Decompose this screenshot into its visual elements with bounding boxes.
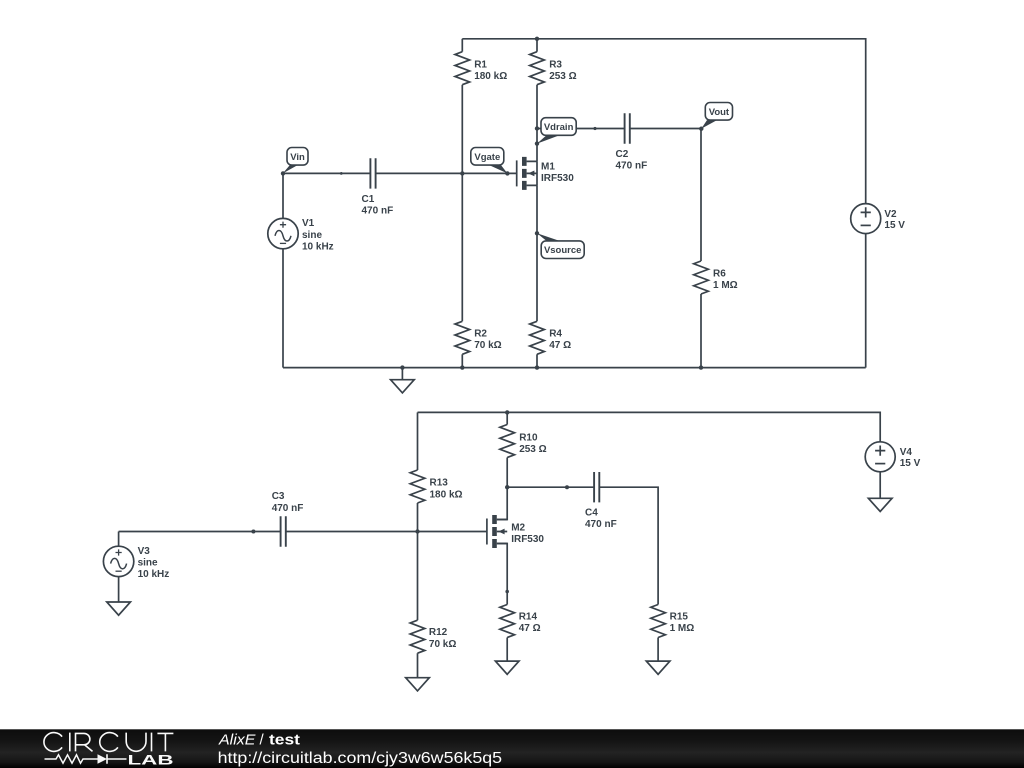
wire R15 bottom stub [657, 638, 659, 662]
svg-text:R14: R14 [519, 611, 538, 622]
junction dot ground rail tap [400, 365, 404, 369]
svg-text:R2: R2 [474, 328, 487, 339]
junction dot R4-rail [535, 365, 539, 369]
svg-text:R15: R15 [670, 611, 689, 622]
junction dot Vdrain anchor [535, 141, 539, 145]
svg-text:C4: C4 [585, 508, 598, 519]
wire R6 bottom stub [700, 294, 702, 368]
wire C4 to R15 corner [599, 487, 658, 604]
source V4 15V [865, 442, 920, 472]
wire V2 bottom lead [865, 234, 867, 368]
svg-text:IRF530: IRF530 [511, 534, 544, 545]
svg-text:R6: R6 [713, 269, 726, 280]
CircuitLab logo CIRCUIT letters [44, 733, 173, 752]
svg-text:47 Ω: 47 Ω [549, 340, 571, 351]
resistor R1 [455, 52, 470, 85]
wire R3 bottom to M1 drain [536, 85, 538, 162]
wire C2 to Vout corner down to R6 [630, 129, 701, 262]
svg-text:C2: C2 [616, 149, 629, 160]
logo resistor-diode doodle [45, 754, 127, 764]
wire M1 source to R4 [536, 185, 538, 321]
svg-text:M1: M1 [541, 161, 555, 172]
svg-text:1 MΩ: 1 MΩ [670, 623, 695, 634]
ground symbol below R15 [646, 661, 670, 674]
wire R1 bottom to input node [461, 85, 463, 322]
wire bottom ground rail [283, 367, 866, 369]
svg-text:Vdrain: Vdrain [544, 122, 574, 133]
svg-text:470 nF: 470 nF [362, 206, 394, 217]
resistor R13 [410, 470, 425, 503]
svg-text:10 kHz: 10 kHz [302, 241, 334, 252]
R12 value label [429, 627, 456, 650]
svg-text:M2: M2 [511, 522, 525, 533]
junction dot C2 left terminal [593, 127, 596, 130]
footer bar background [0, 729, 1024, 768]
wire R4 bottom stub [536, 354, 538, 367]
ground symbol below V3 [107, 602, 131, 615]
wire ground stem top circuit [401, 368, 403, 380]
svg-text:V2: V2 [884, 209, 897, 220]
resistor R15 [651, 605, 666, 638]
wire lower supply rail with V4 branch [418, 412, 881, 442]
wire drain out to C2 [537, 128, 625, 130]
svg-text:470 nF: 470 nF [272, 503, 304, 514]
wire R3 top stub [536, 39, 538, 52]
junction dot M2 source pin [505, 590, 509, 594]
svg-text:180 kΩ: 180 kΩ [430, 489, 463, 500]
R14 value label [519, 611, 541, 634]
junction dot Vsource anchor [535, 231, 539, 235]
ground symbol below V4 [868, 498, 892, 511]
junction dot rail-R10 [505, 410, 509, 414]
resistor R6 [694, 261, 709, 294]
junction dot Vin node [281, 171, 285, 175]
svg-text:R13: R13 [430, 478, 449, 489]
svg-text:470 nF: 470 nF [616, 161, 648, 172]
junction dot R6-rail [699, 365, 703, 369]
source V3 sine 10kHz [103, 546, 169, 580]
wire M2 drain lead [497, 487, 507, 519]
junction dot rail-R3 [535, 37, 539, 41]
svg-text:1 MΩ: 1 MΩ [713, 280, 738, 291]
svg-text:R4: R4 [549, 328, 562, 339]
svg-text:test: test [269, 732, 300, 749]
svg-text:sine: sine [138, 558, 158, 569]
junction dot C4 left terminal [565, 485, 569, 489]
junction dot C1 left terminal [340, 172, 343, 175]
wire V4 bottom lead [879, 472, 881, 499]
svg-text:253 Ω: 253 Ω [519, 444, 546, 455]
ground symbol top circuit [391, 380, 415, 393]
wire R10 top stub [506, 412, 508, 424]
wire R10 bottom to drain node [506, 458, 508, 488]
junction dot R2-rail [460, 365, 464, 369]
svg-text:Vout: Vout [709, 107, 730, 118]
svg-text:C3: C3 [272, 491, 285, 502]
svg-text:180 kΩ: 180 kΩ [474, 71, 507, 82]
junction dot drain-output [535, 126, 539, 130]
junction dot drain node [505, 485, 509, 489]
C3 value label [272, 491, 304, 514]
svg-text:Vsource: Vsource [544, 245, 582, 256]
junction dot Vout corner [699, 127, 703, 131]
capacitor C2 [625, 113, 630, 143]
C2 value label [616, 149, 648, 172]
transistor M2 IRF530 [487, 515, 545, 548]
svg-text:IRF530: IRF530 [541, 173, 574, 184]
resistor R14 [500, 605, 515, 638]
junction dot C3 left terminal [251, 530, 255, 534]
wire C1 to M1 gate [376, 172, 517, 174]
resistor R12 [410, 620, 425, 653]
wire V1 bottom lead [282, 249, 284, 368]
resistor R2 [455, 321, 470, 354]
C1 value label [362, 194, 394, 217]
wire M1 internal vertical [536, 161, 538, 185]
R4 value label [549, 328, 571, 351]
wire drain node to C4 [507, 486, 594, 488]
wire V3 to C3 [119, 531, 281, 533]
wire V3 bottom lead [118, 576, 120, 602]
resistor R4 [530, 321, 545, 354]
resistor R3 [530, 52, 545, 85]
wire V1 top lead [282, 173, 284, 218]
ground symbol below R12 [406, 678, 430, 691]
R6 value label [713, 269, 738, 292]
junction dot gate-R13 junction [415, 529, 419, 533]
svg-text:V4: V4 [900, 447, 913, 458]
svg-text:Vgate: Vgate [474, 152, 500, 163]
svg-text:V3: V3 [138, 546, 151, 557]
R1 value label [474, 59, 507, 82]
svg-text:LAB: LAB [128, 752, 174, 768]
wire R2 bottom stub [461, 354, 463, 367]
capacitor C3 [281, 516, 286, 546]
footer author line AlixE / test [218, 732, 300, 749]
wire R13 bottom to gate net [417, 503, 419, 620]
node flag Vsource [537, 233, 584, 258]
svg-text:sine: sine [302, 230, 322, 241]
svg-text:Vin: Vin [290, 152, 305, 163]
wire input net Vin to C1 [283, 172, 370, 174]
svg-text:R1: R1 [474, 59, 487, 70]
source V2 15V [851, 204, 906, 234]
wire R13 top stub [417, 412, 419, 470]
wire V3 top lead [118, 532, 120, 547]
capacitor C4 [594, 472, 599, 502]
R10 value label [519, 432, 546, 455]
node flag Vdrain [537, 118, 576, 144]
R3 value label [549, 59, 576, 82]
capacitor C1 [370, 158, 375, 188]
wire R12 bottom stub [417, 653, 419, 678]
transistor M1 IRF530 [517, 157, 575, 190]
wire C3 to M2 gate [286, 531, 487, 533]
svg-text:10 kHz: 10 kHz [138, 569, 170, 580]
svg-text:R10: R10 [519, 432, 538, 443]
svg-text:R12: R12 [429, 627, 448, 638]
svg-text:V1: V1 [302, 218, 315, 229]
wire R14 bottom stub [506, 638, 508, 662]
svg-text:R3: R3 [549, 59, 562, 70]
resistor R10 [500, 425, 515, 458]
wire top supply rail with V2 branch [462, 39, 865, 204]
junction dot R1-R2-input [460, 171, 464, 175]
svg-text:47 Ω: 47 Ω [519, 623, 541, 634]
R15 value label [670, 611, 695, 634]
svg-text:253 Ω: 253 Ω [549, 71, 576, 82]
svg-text:15 V: 15 V [884, 220, 905, 231]
R13 value label [430, 478, 463, 501]
svg-text:C1: C1 [362, 194, 375, 205]
svg-text:http://circuitlab.com/cjy3w6w5: http://circuitlab.com/cjy3w6w56k5q5 [218, 750, 503, 767]
svg-text:70 kΩ: 70 kΩ [429, 639, 456, 650]
svg-text:AlixE: AlixE [218, 732, 257, 749]
node flag Vgate [471, 148, 508, 174]
node flag Vout [701, 103, 732, 129]
wire M2 source lead [497, 544, 507, 605]
node flag Vin [283, 148, 308, 174]
svg-text:470 nF: 470 nF [585, 519, 617, 530]
svg-text:15 V: 15 V [900, 458, 921, 469]
svg-text:70 kΩ: 70 kΩ [474, 340, 501, 351]
C4 value label [585, 508, 617, 531]
wire R1 top stub [461, 39, 463, 52]
R2 value label [474, 328, 501, 351]
source V1 sine 10kHz [268, 218, 334, 252]
junction dot Vgate anchor [505, 171, 509, 175]
ground symbol below R14 [495, 661, 519, 674]
